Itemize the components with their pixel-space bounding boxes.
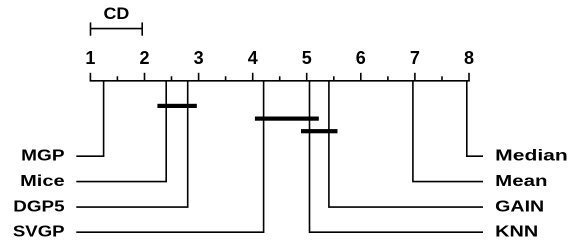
svg-text:7: 7 [410,48,420,68]
svg-text:Median: Median [495,147,568,164]
svg-text:DGP5: DGP5 [13,198,64,215]
svg-text:GAIN: GAIN [495,198,544,215]
svg-text:CD: CD [104,4,130,23]
svg-text:3: 3 [194,48,204,68]
svg-text:4: 4 [248,48,258,68]
svg-text:KNN: KNN [495,223,538,240]
svg-text:MGP: MGP [21,147,65,164]
svg-text:6: 6 [356,48,366,68]
svg-text:8: 8 [464,48,474,68]
svg-text:SVGP: SVGP [13,223,65,240]
svg-text:2: 2 [139,48,149,68]
svg-text:Mice: Mice [20,173,65,190]
svg-text:5: 5 [302,48,312,68]
svg-text:1: 1 [85,48,95,68]
svg-text:Mean: Mean [495,173,547,190]
